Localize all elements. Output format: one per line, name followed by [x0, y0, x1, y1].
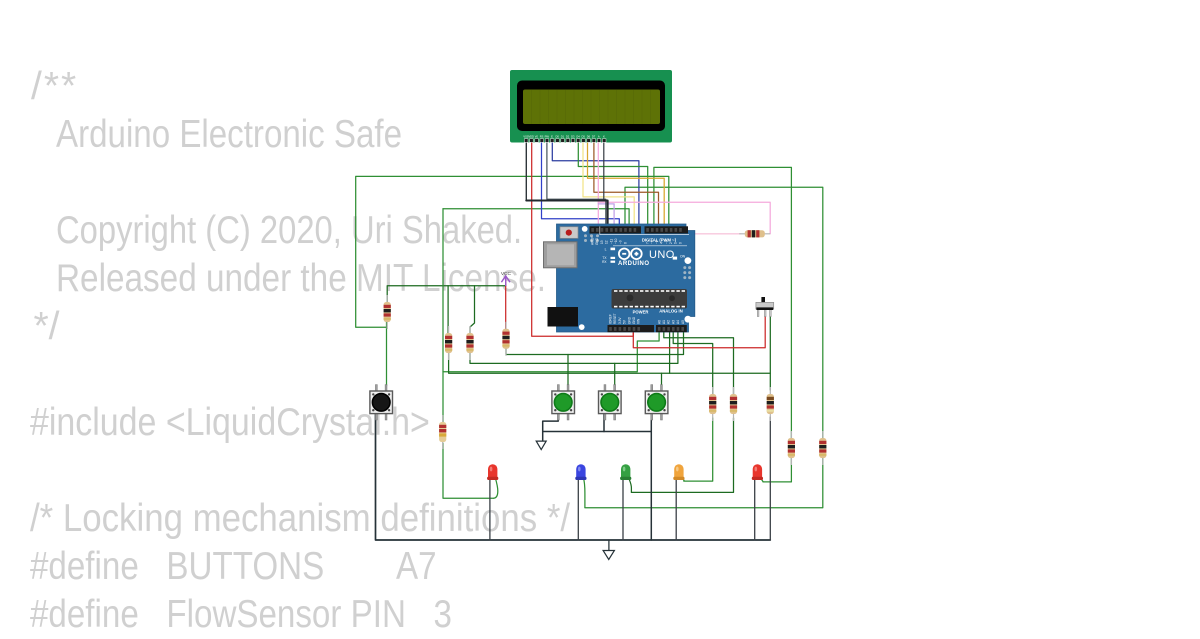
svg-text:RW: RW	[545, 135, 550, 139]
svg-text:8: 8	[623, 242, 627, 244]
svg-text:VDD: VDD	[528, 135, 534, 139]
svg-text:RS: RS	[540, 135, 544, 139]
svg-text:~11: ~11	[609, 239, 613, 244]
svg-text:DIGITAL (PWM ~): DIGITAL (PWM ~)	[642, 238, 677, 243]
svg-text:A5: A5	[681, 320, 685, 324]
svg-text:ON: ON	[680, 254, 686, 258]
svg-text:ARDUINO: ARDUINO	[618, 261, 650, 267]
svg-text:D1: D1	[561, 135, 565, 139]
svg-text:POWER: POWER	[633, 309, 649, 314]
svg-text:E: E	[551, 135, 553, 139]
svg-text:D5: D5	[582, 135, 586, 139]
svg-text:D0: D0	[556, 135, 560, 139]
svg-text:A1: A1	[662, 320, 666, 324]
svg-text:GND: GND	[627, 316, 631, 324]
svg-text:3.3V: 3.3V	[618, 317, 622, 324]
svg-text:D4: D4	[576, 135, 580, 139]
svg-text:D6: D6	[587, 135, 591, 139]
svg-text:GND: GND	[632, 316, 636, 324]
svg-text:K: K	[603, 135, 605, 139]
svg-text:13: 13	[600, 240, 604, 244]
svg-text:A0: A0	[657, 320, 661, 324]
svg-text:VIN: VIN	[637, 318, 641, 324]
svg-text:A3: A3	[671, 320, 675, 324]
svg-text:D3: D3	[571, 135, 575, 139]
svg-text:L: L	[605, 247, 607, 251]
svg-text:A2: A2	[667, 320, 671, 324]
svg-text:AREF: AREF	[591, 236, 595, 245]
svg-text:V0: V0	[535, 135, 539, 139]
svg-text:~10: ~10	[614, 238, 618, 244]
svg-text:A4: A4	[676, 320, 680, 324]
svg-text:D7: D7	[592, 135, 596, 139]
svg-text:IOREF: IOREF	[609, 314, 613, 324]
svg-text:0: 0	[678, 242, 682, 244]
svg-text:UNO: UNO	[649, 249, 675, 261]
svg-text:ANALOG IN: ANALOG IN	[659, 309, 683, 314]
svg-text:A: A	[598, 135, 600, 139]
svg-text:GND: GND	[595, 237, 599, 245]
svg-text:RESET: RESET	[613, 313, 617, 324]
svg-text:12: 12	[605, 240, 609, 244]
svg-text:~9: ~9	[619, 240, 623, 244]
svg-text:D2: D2	[566, 135, 570, 139]
